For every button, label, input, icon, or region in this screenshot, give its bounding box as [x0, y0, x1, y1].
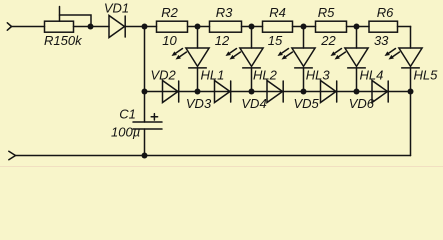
node R1/VD1 — [88, 24, 94, 30]
LED HL2 — [226, 27, 264, 92]
node mid HL2 — [249, 89, 255, 95]
svg-text:HL1: HL1 — [201, 67, 225, 82]
R1 tap link to right lead — [60, 15, 92, 27]
svg-text:33: 33 — [374, 33, 389, 48]
LED HL5 — [385, 27, 423, 92]
bottom rail wire — [16, 155, 411, 157]
wire VD1 to R2 — [125, 26, 156, 28]
svg-text:R5: R5 — [318, 5, 335, 20]
svg-text:HL4: HL4 — [360, 67, 384, 82]
wire down feed / C1 branch — [144, 27, 146, 123]
resistor R6 — [369, 21, 398, 32]
diode VD5 — [321, 81, 337, 103]
svg-text:VD3: VD3 — [186, 96, 212, 111]
node mid right — [408, 89, 414, 95]
svg-text:HL3: HL3 — [306, 67, 331, 82]
node mid HL4 — [354, 89, 360, 95]
C1 plus sign — [151, 114, 157, 120]
wire terminal to R1 — [12, 26, 45, 28]
LED HL1 — [172, 27, 210, 92]
wire R1 to VD1 — [74, 26, 110, 28]
svg-text:R4: R4 — [269, 5, 286, 20]
svg-text:R150k: R150k — [44, 33, 83, 48]
node bottom C1 — [142, 153, 148, 159]
resistor R4 — [263, 21, 293, 32]
scan edge tint bottom — [0, 166, 443, 167]
LED HL3 — [278, 27, 316, 92]
wire R6 to top-right corner — [398, 26, 411, 29]
svg-text:R3: R3 — [216, 5, 233, 20]
svg-text:R6: R6 — [377, 5, 394, 20]
R1 wiper tap stub — [59, 7, 61, 22]
diode VD4 — [267, 81, 283, 103]
input terminal top-left — [7, 23, 11, 30]
svg-text:12: 12 — [215, 33, 230, 48]
node top HL1 — [195, 24, 201, 30]
node A (top feed) — [142, 24, 148, 30]
diode VD3 — [215, 81, 231, 103]
wire R2 to R3 — [188, 26, 210, 28]
svg-text:10: 10 — [162, 33, 177, 48]
svg-text:VD4: VD4 — [241, 96, 266, 111]
svg-text:R2: R2 — [161, 5, 178, 20]
wire R3 to R4 — [242, 26, 263, 28]
node mid HL3 — [301, 89, 307, 95]
svg-text:22: 22 — [320, 33, 336, 48]
resistor R2 — [157, 21, 188, 32]
svg-text:VD5: VD5 — [294, 96, 320, 111]
node top HL3 — [301, 24, 307, 30]
diode VD2 — [163, 81, 179, 103]
wire right riser — [410, 92, 412, 156]
svg-text:VD6: VD6 — [349, 96, 375, 111]
LED HL4 — [331, 27, 369, 92]
diode VD1 — [109, 16, 125, 38]
node mid left — [142, 89, 148, 95]
wire R5 to R6 — [347, 26, 370, 28]
svg-text:C1: C1 — [119, 106, 136, 121]
resistor R3 — [210, 21, 242, 32]
input terminal bottom-left — [9, 151, 16, 159]
node mid HL1 — [195, 89, 201, 95]
capacitor C1 bottom plate — [133, 128, 162, 130]
svg-text:HL2: HL2 — [253, 67, 278, 82]
svg-text:HL5: HL5 — [414, 67, 439, 82]
resistor R1 — [45, 21, 74, 32]
resistor R5 — [316, 21, 347, 32]
node top HL2 — [249, 24, 255, 30]
svg-text:VD1: VD1 — [104, 1, 129, 16]
svg-text:15: 15 — [268, 33, 283, 48]
wire C1 to bottom rail — [144, 129, 146, 156]
wire R4 to R5 — [293, 26, 316, 28]
capacitor C1 top plate — [133, 121, 162, 123]
svg-text:VD2: VD2 — [151, 67, 177, 82]
diode VD6 — [372, 81, 388, 103]
node top HL4 — [354, 24, 360, 30]
svg-text:100µ: 100µ — [111, 125, 140, 140]
middle rail wire — [145, 91, 411, 93]
